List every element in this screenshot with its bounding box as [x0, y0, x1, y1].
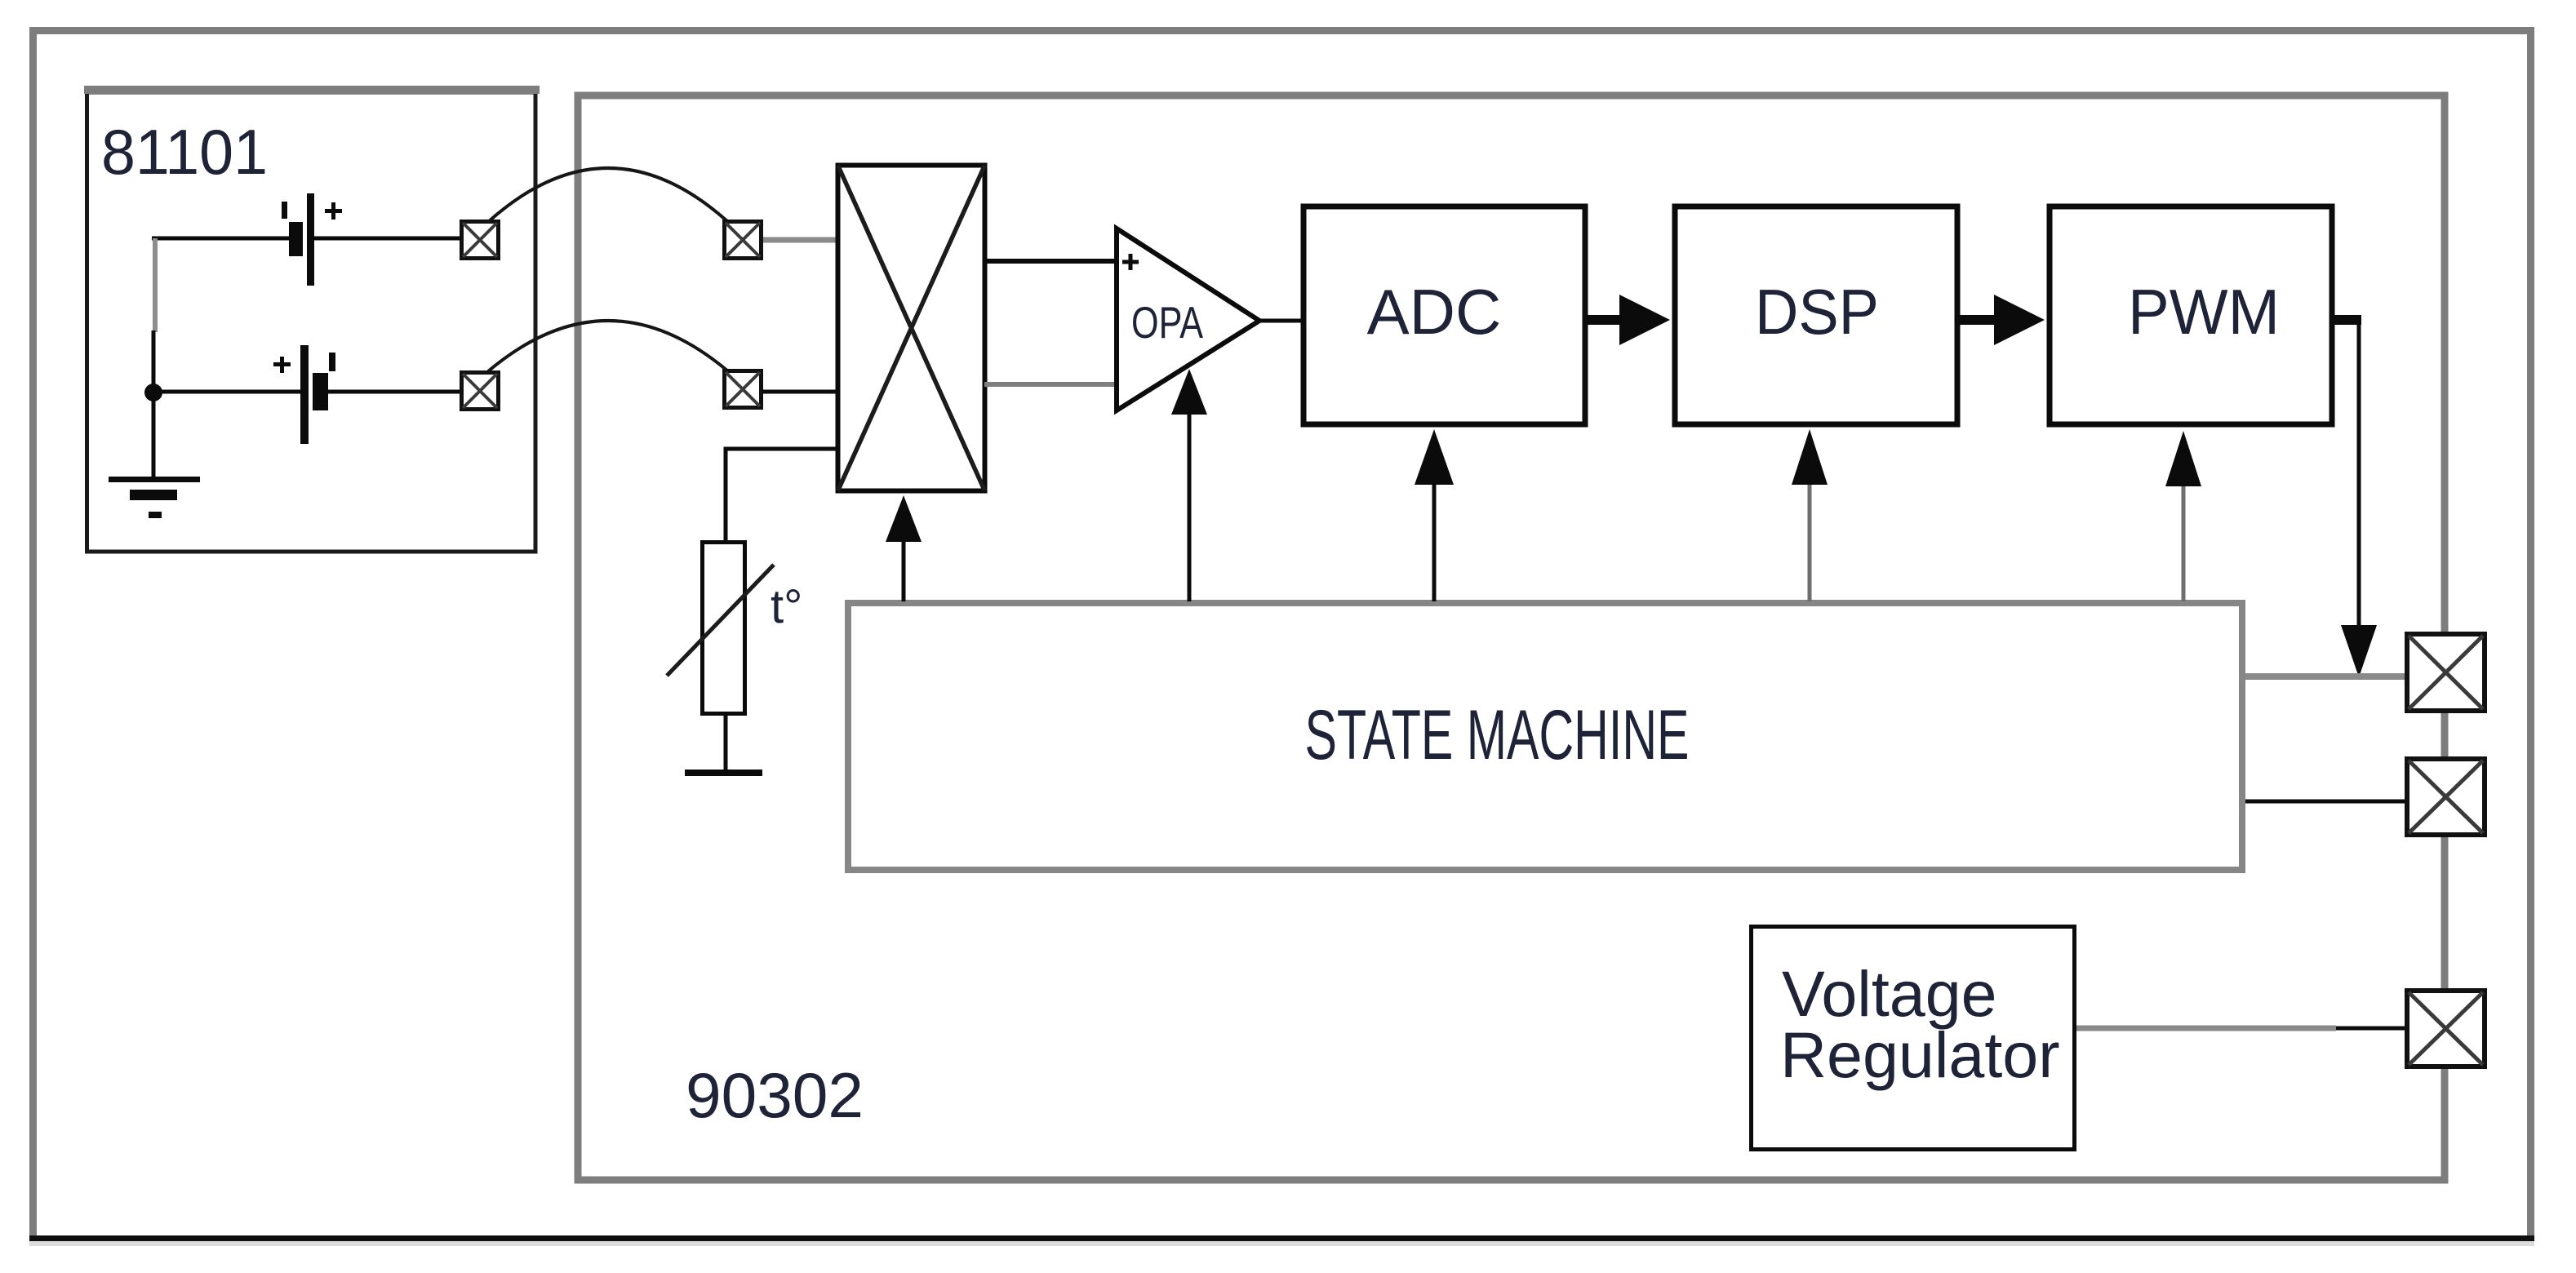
pad chip OUT2 [2407, 759, 2485, 835]
wire mux to opamp lower [984, 382, 1119, 387]
pad chip OUT1 [2407, 634, 2485, 711]
arrow state machine to mux [886, 495, 922, 601]
pad chip IN1 [725, 222, 762, 259]
thermistor RT body [703, 543, 745, 714]
wire voltage regulator to pad [2076, 1026, 2336, 1031]
wire opamp output to ADC [1259, 319, 1304, 323]
wire arc sensor to chip upper [488, 168, 728, 222]
arrow state machine to PWM [2165, 431, 2201, 601]
wire state machine to pad OUT1 [2245, 673, 2407, 680]
battery B1 short plate (negative) [289, 222, 303, 256]
arrow state machine to opamp [1171, 369, 1207, 601]
battery B2 short plate (negative) [313, 373, 328, 410]
block ADC [1304, 206, 1585, 424]
svg-text:PWM: PWM [2128, 276, 2280, 348]
block PWM [2050, 206, 2332, 424]
pad chip IN2 [725, 371, 762, 408]
wire battery B1 left [152, 237, 291, 241]
sensor box 81101 [87, 92, 536, 552]
wire battery B1 right [314, 237, 460, 241]
block Voltage Regulator [1752, 927, 2075, 1150]
arrow state machine to ADC [1415, 429, 1454, 601]
ground symbol 81101 [109, 477, 200, 518]
outer frame bottom edge [29, 1235, 2534, 1241]
battery B2 plus sign [273, 357, 291, 373]
battery B2 minus tick [329, 353, 335, 371]
wire battery B2 right [328, 390, 460, 394]
svg-text:STATE MACHINE: STATE MACHINE [1305, 696, 1690, 774]
wire state machine to pad OUT2 [2245, 800, 2407, 804]
wire thermistor elbow to mux [726, 449, 836, 542]
wire pad IN2 to mux [763, 390, 838, 394]
outer frame bottom shadow [29, 1241, 2534, 1246]
op-amp OPA triangle [1117, 228, 1259, 410]
wire mux to opamp upper [984, 259, 1119, 264]
node junction dot [144, 384, 162, 401]
battery B1 plus sign [325, 202, 342, 220]
svg-text:t°: t° [771, 580, 802, 633]
pad chip VDD [2407, 991, 2485, 1067]
outer frame left edge [29, 27, 37, 1241]
svg-text:90302: 90302 [686, 1059, 864, 1131]
multiplexer MUX [838, 166, 985, 491]
svg-text:OPA: OPA [1131, 297, 1203, 348]
wire thermistor to ground [724, 713, 728, 770]
block DSP [1675, 206, 1957, 424]
wire vertical to ground gray upper part [153, 238, 158, 332]
wire PWM output stub [2332, 315, 2361, 325]
arrow PWM output down to pad [2341, 625, 2377, 677]
arrow ADC to DSP [1588, 295, 1670, 345]
op-amp plus input mark [1122, 254, 1139, 270]
svg-text:ADC: ADC [1367, 276, 1502, 348]
svg-text:Regulator: Regulator [1780, 1018, 2060, 1091]
arrow DSP to PWM [1959, 295, 2045, 345]
pad sensor OUT1 [462, 222, 499, 259]
pad sensor OUT2 [462, 373, 499, 410]
arrow state machine to DSP [1792, 429, 1828, 601]
battery B1 minus tick [282, 202, 287, 219]
outer frame top edge [29, 27, 2534, 34]
ground bar thermistor [685, 770, 762, 776]
wire arc sensor to chip lower [488, 321, 728, 371]
wire vertical to ground [152, 330, 156, 478]
thermistor RT diagonal [667, 565, 774, 676]
svg-text:DSP: DSP [1755, 276, 1879, 348]
wire voltage regulator to pad black part [2336, 1027, 2407, 1031]
svg-text:81101: 81101 [101, 116, 268, 188]
chip box 90302 [578, 95, 2445, 1180]
wire PWM output vertical [2357, 320, 2361, 627]
sensor box 81101 gray top edge [84, 86, 540, 94]
wire battery B2 left [152, 390, 300, 394]
outer frame right edge [2527, 27, 2534, 1241]
battery B2 long plate (positive) [300, 345, 309, 444]
block STATE MACHINE [848, 603, 2242, 870]
wire pad IN1 to mux [763, 237, 838, 243]
battery B1 long plate (positive) [307, 193, 314, 286]
